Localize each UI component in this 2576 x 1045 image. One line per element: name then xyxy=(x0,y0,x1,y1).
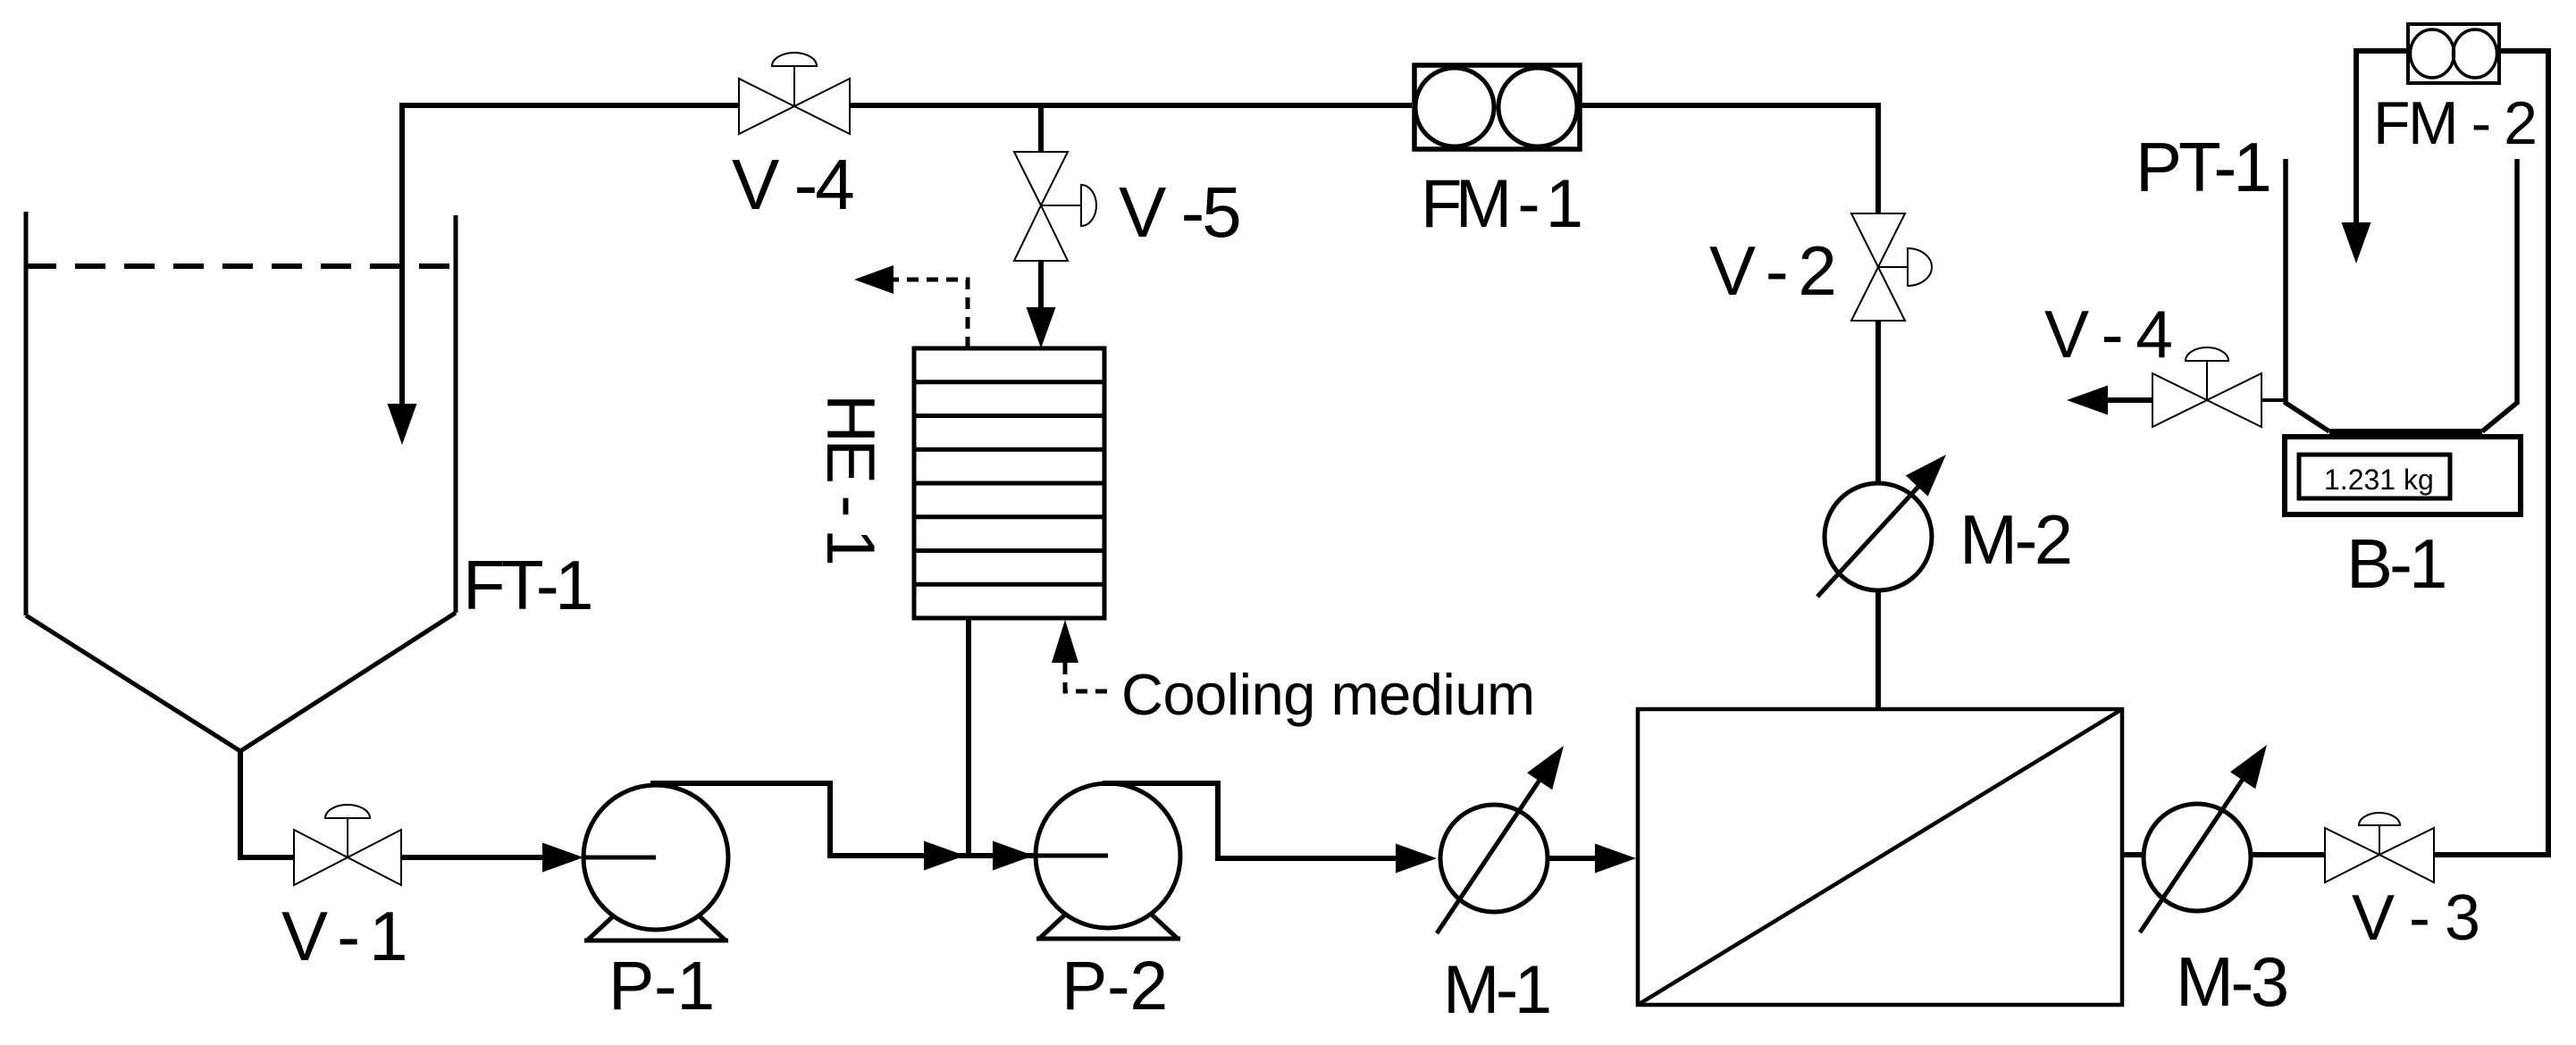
pump P-1 xyxy=(583,785,728,940)
valve V-4 top xyxy=(739,53,850,134)
membrane module xyxy=(1638,709,2122,1005)
svg-text:V -5: V -5 xyxy=(1119,172,1239,252)
wire V-5 to HE-1 xyxy=(1038,261,1044,314)
valve V-4 right xyxy=(2152,347,2261,427)
svg-text:B-1: B-1 xyxy=(2346,524,2445,603)
pump P-2 xyxy=(1036,783,1180,939)
svg-text:V -4: V -4 xyxy=(732,145,853,224)
svg-text:HE - 1: HE - 1 xyxy=(812,394,888,564)
tank liquid level dashed line xyxy=(26,263,456,269)
wire V-5 branch from top pipe xyxy=(1038,105,1044,152)
meter M-2 xyxy=(1817,444,1957,597)
arrow into M-1 xyxy=(1396,844,1437,874)
wire P-2 outlet to M-1 xyxy=(1103,783,1403,858)
flow meter FM-2 xyxy=(2408,24,2499,83)
meter M-1 xyxy=(1437,737,1576,933)
valve V-3 xyxy=(2325,813,2434,882)
beaker PT-1 xyxy=(2286,159,2517,431)
arrow before HE junction xyxy=(924,841,965,871)
svg-text:M-1: M-1 xyxy=(1443,952,1549,1028)
cooling inlet dashed wire xyxy=(1065,663,1115,691)
svg-text:P-1: P-1 xyxy=(608,948,715,1024)
arrow into tank xyxy=(388,404,417,445)
arrow into membrane xyxy=(1595,844,1636,874)
wire M-1 to membrane xyxy=(1548,856,1601,861)
wire HE-1 outlet down to junction xyxy=(966,618,971,856)
wire M-2 to V-2 xyxy=(1875,321,1881,483)
cooling outlet dashed wire xyxy=(894,280,968,348)
arrow into P-2 xyxy=(993,841,1034,871)
wire V-2 up to top pipe corner xyxy=(1581,105,1878,213)
svg-text:V - 3: V - 3 xyxy=(2352,882,2479,954)
svg-text:M-2: M-2 xyxy=(1959,500,2070,579)
arrow cooling outlet xyxy=(854,265,894,294)
arrow V-4 drain xyxy=(2067,386,2108,415)
valve V-2 xyxy=(1851,213,1932,321)
meter M-3 xyxy=(2140,736,2279,932)
valve V-1 xyxy=(294,805,401,885)
svg-text:M-3: M-3 xyxy=(2176,942,2287,1021)
arrow into HE-1 xyxy=(1027,307,1056,348)
svg-text:PT-1: PT-1 xyxy=(2135,128,2269,206)
wire FM-2 to beaker drop xyxy=(2356,51,2408,225)
wire V-4 drain xyxy=(2108,397,2152,403)
svg-text:V - 4: V - 4 xyxy=(2044,297,2171,372)
wire P-1 outlet to junction xyxy=(650,783,1036,856)
arrow cooling inlet xyxy=(1052,620,1078,663)
arrow into P-1 xyxy=(542,843,583,873)
wire top pipe tank to V-4 xyxy=(402,103,739,108)
svg-text:FM - 1: FM - 1 xyxy=(1421,166,1581,242)
flow meter FM-1 xyxy=(1414,65,1580,149)
wire V-4 right to beaker xyxy=(2261,398,2286,402)
arrow into beaker xyxy=(2342,222,2371,263)
svg-text:V - 2: V - 2 xyxy=(1709,231,1833,310)
wire membrane top to M-2 xyxy=(1875,590,1881,709)
wire tank inlet drop xyxy=(399,103,405,407)
svg-text:Cooling medium: Cooling medium xyxy=(1121,662,1535,727)
tank FT-1 xyxy=(26,212,456,751)
wire tank outlet to V-1 xyxy=(240,751,294,857)
valve V-5 xyxy=(1014,152,1096,261)
svg-text:1.231 kg: 1.231 kg xyxy=(2324,464,2434,496)
wire V-1 to P-1 xyxy=(401,855,550,860)
wire top pipe V-4 to FM-1 xyxy=(850,103,1412,108)
svg-text:P-2: P-2 xyxy=(1061,948,1168,1024)
wire V-3 to right riser xyxy=(2434,51,2548,855)
heat exchanger HE-1 xyxy=(914,348,1104,618)
wire membrane right to M-3 xyxy=(2122,852,2144,857)
wire M-3 to V-3 xyxy=(2251,852,2325,857)
svg-text:FM - 2: FM - 2 xyxy=(2373,89,2535,157)
svg-text:FT-1: FT-1 xyxy=(463,546,591,624)
svg-text:V - 1: V - 1 xyxy=(281,897,405,975)
balance B-1 xyxy=(2285,437,2521,514)
